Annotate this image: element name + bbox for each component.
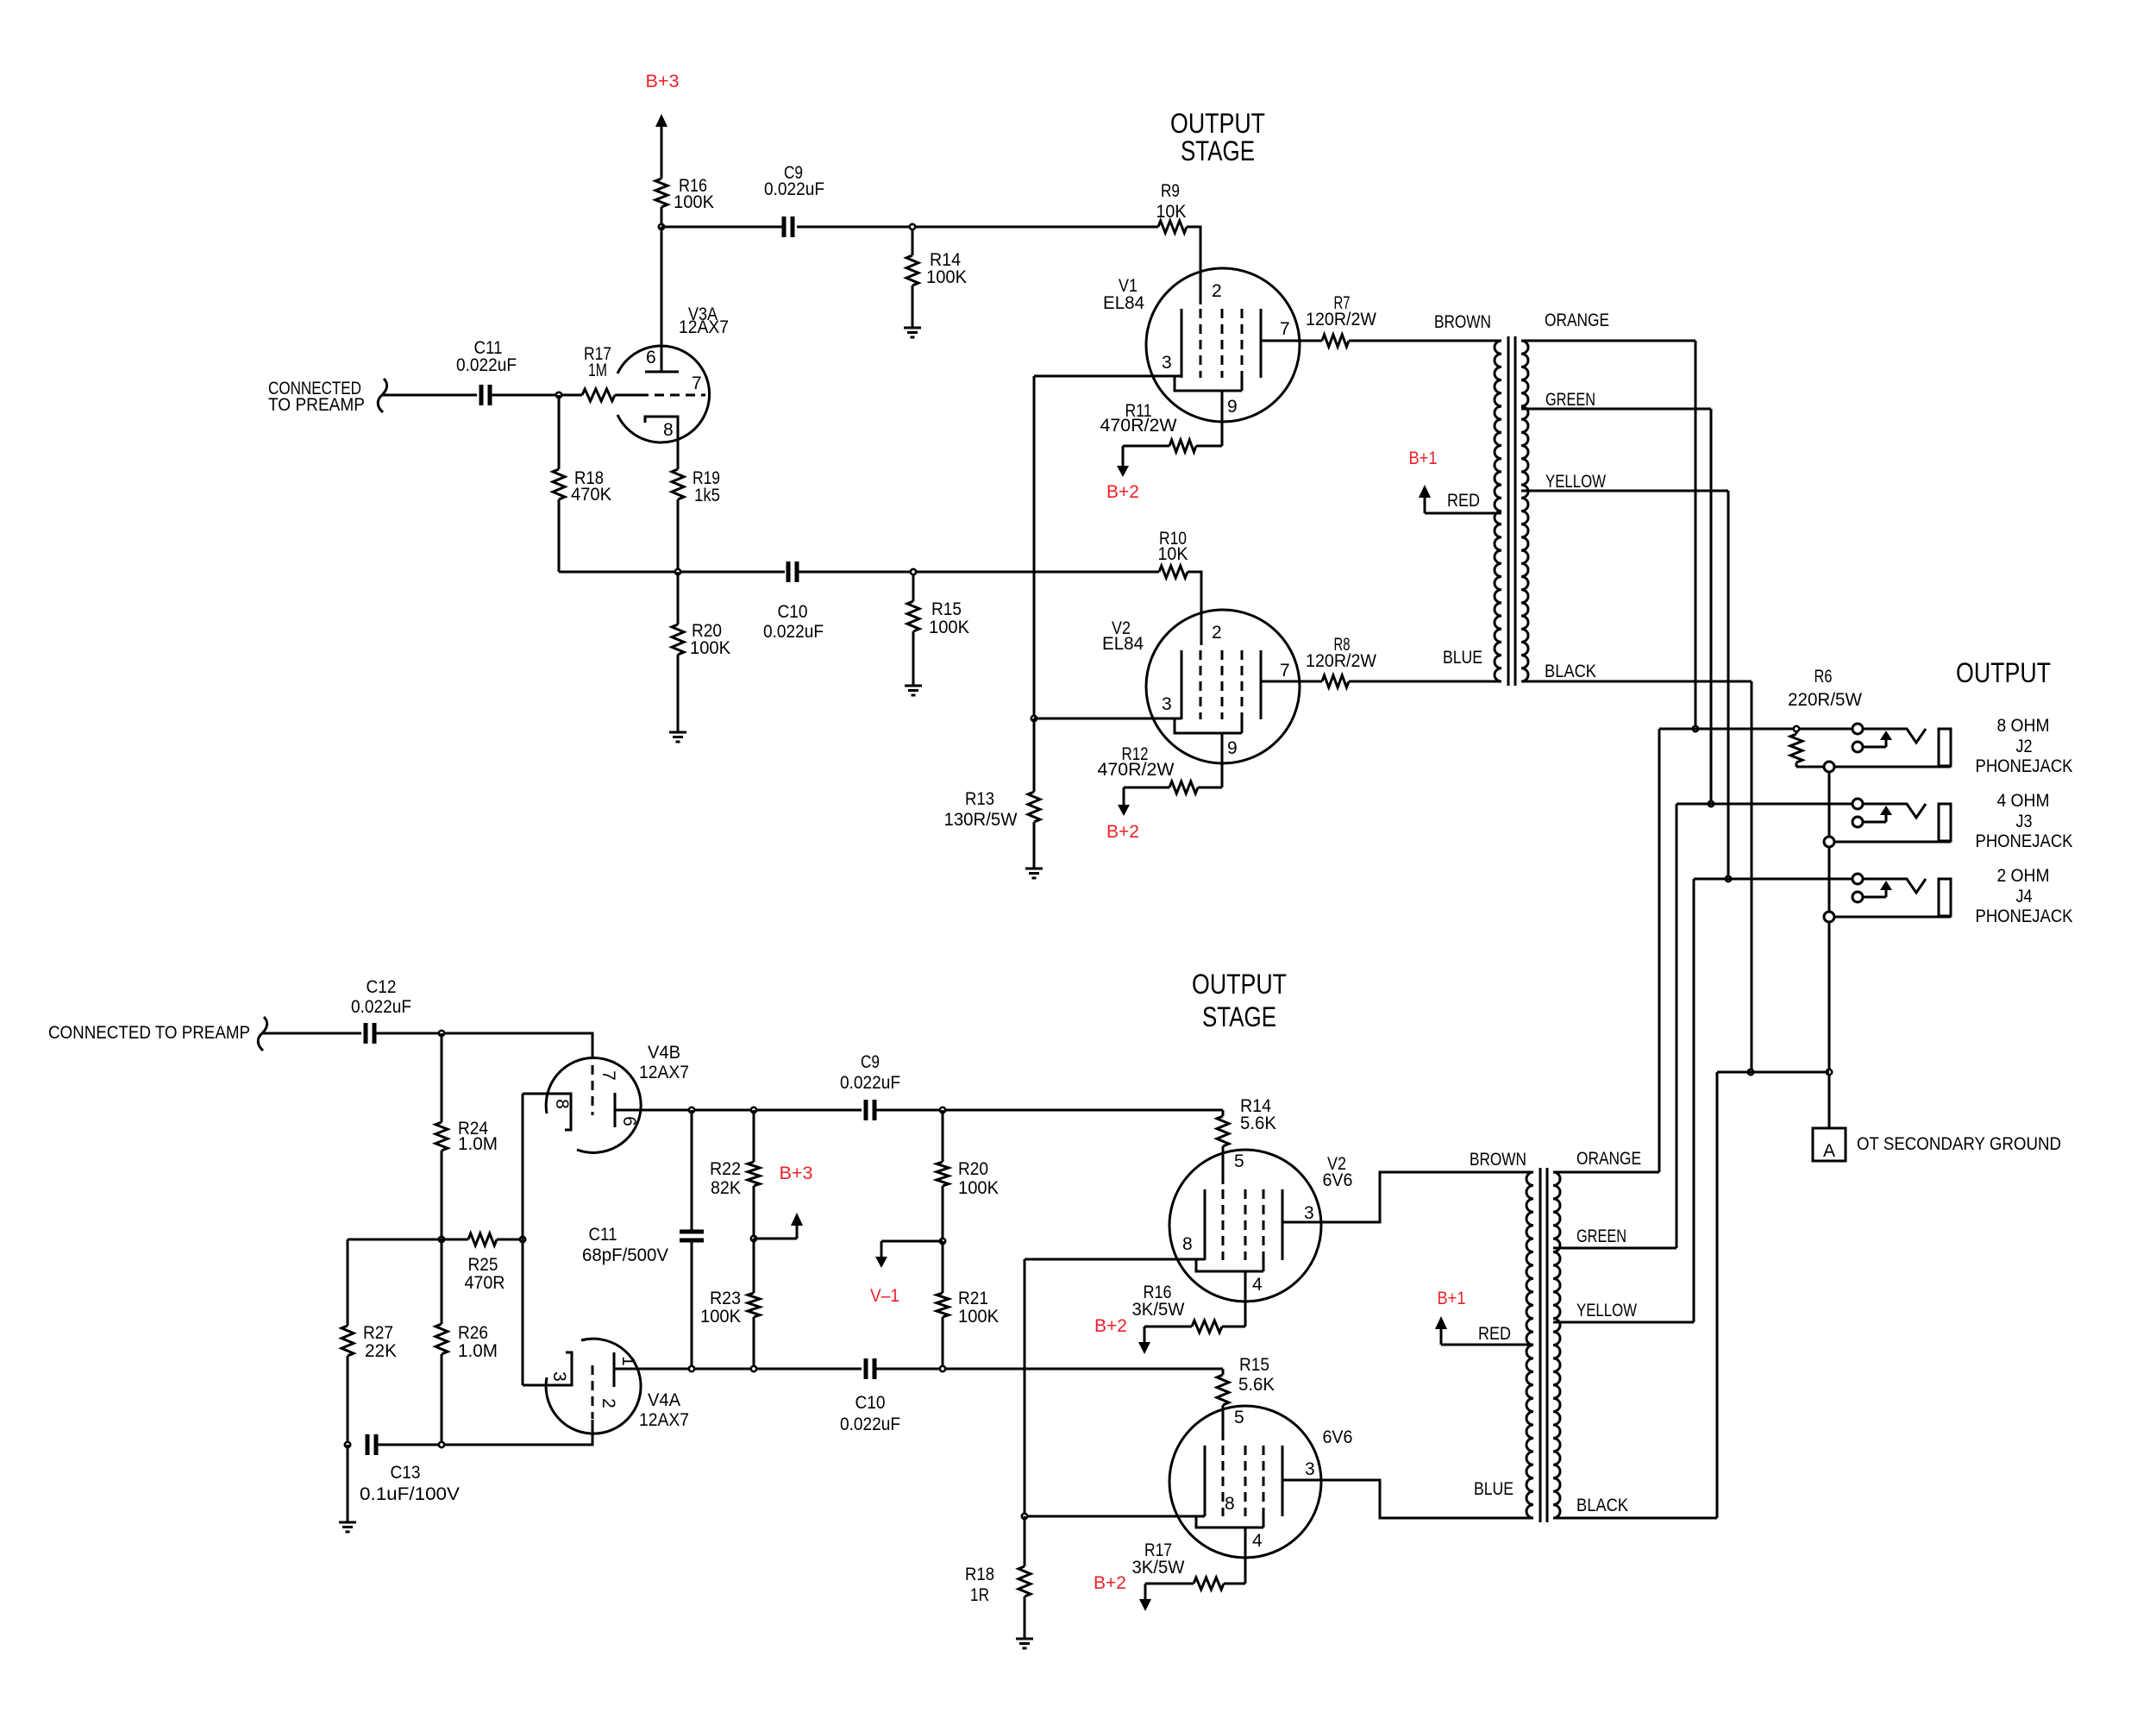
wire C10 to R15 corner [874, 1368, 1223, 1371]
title OUTPUT STAGE (upper) [1170, 108, 1265, 166]
svg-text:OUTPUT: OUTPUT [1170, 108, 1265, 139]
svg-text:R25: R25 [468, 1255, 498, 1275]
label V2 EL84 [1102, 618, 1144, 654]
6V6a screen grid [1244, 1189, 1247, 1260]
break squiggle lower input [258, 1017, 266, 1051]
V2 pin 2 grid [1200, 623, 1222, 719]
arrow to B+2 (R12) [1118, 787, 1130, 816]
pentode 6V6 V2 envelope [1169, 1150, 1321, 1302]
6V6b pin 3 lead [1282, 1459, 1533, 1518]
svg-text:B+2: B+2 [1106, 822, 1139, 842]
svg-text:BLUE: BLUE [1474, 1479, 1514, 1499]
T1 GREEN tap [1521, 390, 1711, 410]
wire to V-1 arrow [881, 1240, 943, 1243]
wire 2ohm down to T2 YELLOW [1693, 879, 1695, 1322]
svg-text:R21: R21 [958, 1289, 988, 1308]
svg-text:C13: C13 [391, 1463, 421, 1483]
capacitor C11 68pF [582, 1110, 704, 1369]
arrow to B+2 (R11) [1117, 446, 1129, 477]
svg-text:130R/5W: 130R/5W [944, 810, 1018, 830]
resistor R8 [1306, 635, 1376, 687]
svg-text:100K: 100K [929, 618, 969, 637]
capacitor C12 [351, 977, 411, 1044]
svg-text:V–1: V–1 [870, 1286, 899, 1306]
label BLUE (lower) [1474, 1479, 1514, 1499]
svg-text:B+2: B+2 [1094, 1573, 1126, 1593]
svg-text:STAGE: STAGE [1202, 1001, 1276, 1032]
svg-text:0.022uF: 0.022uF [763, 622, 824, 642]
label V4A 12AX7 [639, 1390, 689, 1430]
T2 RED tap [1441, 1324, 1533, 1345]
resistor R6 [1788, 667, 1862, 767]
svg-text:100K: 100K [958, 1307, 999, 1327]
arrow to B+3 (lower) [791, 1213, 803, 1239]
svg-text:R20: R20 [958, 1159, 988, 1179]
6V6a pin 3 lead [1282, 1172, 1533, 1223]
svg-text:OUTPUT: OUTPUT [1956, 657, 2051, 688]
svg-text:B+1: B+1 [1409, 448, 1438, 468]
svg-text:1k5: 1k5 [694, 486, 720, 505]
arrow up to B+3 [655, 114, 667, 179]
svg-text:B+2: B+2 [1094, 1316, 1127, 1336]
ground ref box A [1813, 1128, 1846, 1161]
svg-text:C10: C10 [778, 602, 808, 622]
node C10/R21 bottom [940, 1366, 945, 1371]
V2 cathode [1181, 650, 1183, 719]
label 6V6 (lower) [1323, 1427, 1353, 1447]
pentode V2 envelope [1146, 610, 1300, 763]
capacitor C9 [764, 163, 824, 237]
node R27/C13 [345, 1442, 350, 1447]
svg-text:100K: 100K [700, 1307, 741, 1327]
jack J4 ring contact [1852, 892, 1863, 902]
svg-text:12AX7: 12AX7 [679, 317, 729, 337]
svg-text:7: 7 [692, 373, 702, 393]
svg-text:5.6K: 5.6K [1238, 1375, 1275, 1395]
svg-text:V4B: V4B [648, 1043, 680, 1063]
svg-text:470R: 470R [465, 1273, 505, 1293]
resistor R14 [906, 229, 967, 328]
ground under R20 [669, 732, 686, 742]
wire ORANGE down [1695, 341, 1697, 729]
svg-text:470K: 470K [571, 485, 611, 505]
svg-text:5.6K: 5.6K [1240, 1113, 1276, 1133]
jack J3 ring contact [1852, 817, 1863, 827]
svg-text:1M: 1M [588, 361, 607, 380]
node C12/R24 [439, 1031, 444, 1036]
resistor R15 (upper) [907, 574, 969, 686]
wire 2ohm feed [1694, 878, 1852, 881]
jack J2 tip contact [1852, 724, 1863, 734]
6V6a suppressor grid [1263, 1189, 1265, 1271]
svg-text:0.022uF: 0.022uF [840, 1073, 900, 1093]
node C9/R14 [910, 224, 915, 229]
net label B+2 (R12) [1106, 822, 1139, 842]
wire YELLOW down [1727, 491, 1730, 879]
jack J2 ring contact [1852, 742, 1863, 752]
T2 YELLOW tap [1553, 1301, 1694, 1322]
wire C10 to R10 [797, 571, 1159, 574]
ground under R13 [1025, 869, 1043, 878]
6V6b suppressor grid [1263, 1446, 1265, 1527]
resistor R15 (lower) [1217, 1355, 1275, 1440]
6V6b screen grid [1244, 1446, 1247, 1516]
transformer T1 core [1508, 336, 1515, 686]
wire GREEN down [1710, 409, 1713, 804]
T1 BLACK tap [1521, 662, 1752, 681]
svg-text:PHONEJACK: PHONEJACK [1976, 906, 2073, 926]
wire C13 ground stem [347, 1445, 349, 1522]
svg-text:470R/2W: 470R/2W [1098, 760, 1175, 780]
triode V4A envelope [546, 1339, 641, 1433]
svg-text:6V6: 6V6 [1323, 1427, 1353, 1447]
wire 4ohm feed [1677, 803, 1852, 806]
svg-text:3: 3 [1304, 1203, 1314, 1223]
svg-text:B+3: B+3 [780, 1164, 813, 1183]
svg-text:RED: RED [1478, 1324, 1511, 1344]
net label B+1 (T2) [1438, 1289, 1466, 1308]
svg-text:1.0M: 1.0M [458, 1341, 498, 1361]
node R18 junction [1022, 1514, 1027, 1519]
node C9/R20 lower [940, 1107, 945, 1113]
T1 RED tap [1425, 491, 1501, 513]
arrow to V-1 [875, 1241, 887, 1268]
svg-text:8 OHM: 8 OHM [1997, 716, 2050, 736]
svg-text:PHONEJACK: PHONEJACK [1976, 831, 2073, 851]
capacitor C11 (input) [456, 338, 517, 405]
net label B+3 (top) [646, 72, 680, 91]
svg-text:7: 7 [599, 1070, 618, 1081]
wire sleeve bus [1828, 772, 1831, 1072]
svg-text:B+1: B+1 [1438, 1289, 1466, 1308]
resistor R14 (lower) [1217, 1096, 1276, 1184]
V4B plate wire [615, 1109, 862, 1112]
svg-text:BROWN: BROWN [1470, 1150, 1526, 1170]
V4A plate (pin 1) [614, 1352, 638, 1387]
T1 YELLOW tap [1521, 472, 1728, 492]
svg-text:R23: R23 [710, 1289, 741, 1308]
svg-text:3K/5W: 3K/5W [1132, 1558, 1185, 1578]
svg-text:100K: 100K [958, 1178, 999, 1198]
transformer T1 secondary [1521, 341, 1528, 681]
wire C9 to R14 corner [874, 1109, 1223, 1112]
svg-text:EL84: EL84 [1103, 293, 1144, 313]
wire C11 to R17 [490, 394, 582, 397]
svg-text:3: 3 [1162, 694, 1172, 714]
transformer T2 primary [1526, 1172, 1533, 1518]
V1 pin 3 lead [1034, 353, 1181, 376]
triode V4B envelope [546, 1057, 641, 1152]
svg-text:YELLOW: YELLOW [1545, 472, 1606, 492]
pentode V1 envelope [1146, 268, 1300, 422]
svg-text:2 OHM: 2 OHM [1997, 866, 2050, 886]
V4A grid (pin 2) [592, 1365, 618, 1445]
svg-text:EL84: EL84 [1102, 634, 1144, 654]
svg-text:STAGE: STAGE [1181, 135, 1255, 166]
resistor R21 (lower) [937, 1241, 999, 1369]
V1 cathode [1181, 309, 1183, 378]
node plate/R22 [751, 1107, 756, 1113]
wire R10 to V2 pin2 [1188, 572, 1201, 645]
svg-text:220R/5W: 220R/5W [1788, 690, 1862, 710]
svg-text:5: 5 [1234, 1151, 1244, 1171]
resistor R11 [1100, 401, 1223, 452]
svg-text:CONNECTED TO PREAMP: CONNECTED TO PREAMP [48, 1023, 250, 1043]
wire BLACK lower link [1717, 1071, 1829, 1074]
svg-text:BROWN: BROWN [1434, 312, 1491, 332]
svg-text:68pF/500V: 68pF/500V [582, 1245, 668, 1265]
svg-text:82K: 82K [711, 1178, 741, 1198]
V1 pin 9 lead [1222, 391, 1238, 446]
node plate/C11 [689, 1107, 694, 1113]
svg-text:OUTPUT: OUTPUT [1192, 969, 1287, 1000]
label OUTPUT (jacks) [1956, 657, 2051, 688]
arrow to B+1 (T2) [1435, 1316, 1447, 1345]
jack J4 tip spring [1864, 879, 1926, 893]
svg-text:B+2: B+2 [1106, 482, 1139, 502]
svg-text:120R/2W: 120R/2W [1306, 651, 1376, 671]
V4A plate wire [614, 1368, 862, 1371]
svg-text:V4A: V4A [648, 1390, 680, 1410]
label V1 EL84 [1103, 276, 1144, 313]
label BROWN (upper) [1434, 312, 1491, 332]
V2 plate [1260, 650, 1263, 719]
svg-text:3: 3 [1162, 353, 1172, 373]
svg-text:10K: 10K [1156, 202, 1187, 222]
wire R9 to V1 pin2 [1187, 227, 1200, 304]
svg-text:4: 4 [1252, 1531, 1263, 1551]
svg-text:4: 4 [1252, 1275, 1263, 1295]
svg-text:7: 7 [1280, 319, 1290, 339]
svg-text:3: 3 [549, 1371, 569, 1382]
svg-text:R15: R15 [931, 599, 962, 619]
text CONNECTED TO PREAMP (upper) [268, 379, 365, 415]
wire V1 pin3 bus [1033, 376, 1036, 718]
V1 suppressor grid [1241, 309, 1244, 391]
node R6 top [1794, 726, 1799, 731]
text CONNECTED TO PREAMP (lower) [48, 1023, 250, 1043]
svg-text:C10: C10 [856, 1393, 886, 1413]
svg-text:120R/2W: 120R/2W [1306, 310, 1376, 329]
svg-text:6V6: 6V6 [1323, 1170, 1353, 1190]
svg-text:R6: R6 [1814, 667, 1833, 687]
net label B+2 (R11) [1106, 482, 1139, 502]
node R25/cathode bus [520, 1237, 525, 1242]
node R22/R23 divider [751, 1236, 756, 1241]
svg-text:A: A [1823, 1141, 1835, 1161]
node plate V3A junction [659, 224, 664, 229]
node R20/R21 divider [940, 1239, 945, 1244]
6V6a pin 5 grid [1223, 1151, 1244, 1260]
resistor R16 [655, 176, 714, 212]
node sleeve/BLACK [1827, 1069, 1832, 1075]
resistor R7 [1306, 293, 1376, 347]
6V6a pin 4 lead [1245, 1271, 1263, 1327]
arrow to B+2 (R17) [1139, 1584, 1151, 1611]
V2 pin 7 lead [1261, 661, 1322, 681]
ground under R15 [905, 686, 922, 695]
svg-text:6: 6 [619, 1116, 639, 1126]
resistor R12 [1098, 744, 1223, 793]
V1 cathode hook [1175, 376, 1242, 391]
break squiggle upper input [378, 379, 386, 412]
svg-text:7: 7 [1280, 661, 1290, 681]
V3A cathode (pin 8) [645, 417, 678, 440]
wire R16 to plate node [661, 207, 663, 227]
capacitor C10 (upper) [763, 561, 824, 642]
wire cathode bus V4B-V4A [522, 1094, 524, 1385]
svg-text:1: 1 [618, 1356, 638, 1366]
jack J2 switch arrow [1864, 731, 1892, 747]
jack J3 body [1939, 804, 1951, 841]
svg-text:YELLOW: YELLOW [1576, 1301, 1637, 1320]
jack J2 body [1939, 729, 1951, 766]
wire R7 to transformer BROWN [1349, 340, 1501, 342]
V2 suppressor grid [1241, 650, 1244, 733]
jack J3 sleeve contact [1824, 837, 1834, 847]
V1 pin 2 grid [1200, 281, 1222, 378]
label OT SECONDARY GROUND [1857, 1134, 2061, 1154]
6V6a pin 8 lead [1025, 1234, 1205, 1259]
label 4 OHM J3 PHONEJACK [1976, 791, 2073, 851]
label V2 6V6 [1323, 1154, 1353, 1190]
resistor R25 [465, 1233, 523, 1293]
svg-text:C9: C9 [861, 1052, 880, 1072]
wire R18 to C10 row [559, 571, 785, 574]
svg-text:2: 2 [599, 1398, 618, 1408]
arrow to B+2 (R16) [1138, 1327, 1150, 1354]
svg-text:0.022uF: 0.022uF [840, 1414, 900, 1434]
svg-text:ORANGE: ORANGE [1576, 1149, 1641, 1169]
jack J4 sleeve line [1834, 916, 1951, 919]
svg-text:8: 8 [1182, 1234, 1193, 1254]
svg-text:GREEN: GREEN [1576, 1226, 1626, 1246]
svg-text:BLUE: BLUE [1443, 648, 1482, 668]
6V6b pin 5 grid [1223, 1408, 1244, 1516]
node grid V3A junction [556, 392, 561, 398]
ground under C13 [339, 1522, 356, 1532]
svg-text:R26: R26 [458, 1323, 488, 1343]
svg-text:B+3: B+3 [646, 72, 680, 91]
svg-text:RED: RED [1447, 491, 1480, 511]
svg-text:10K: 10K [1158, 544, 1188, 564]
wire 4ohm down to T2 GREEN [1676, 804, 1678, 1248]
node ORANGE/8ohm [1693, 726, 1698, 731]
node GREEN/4ohm [1708, 801, 1714, 806]
jack J2 sleeve line [1796, 766, 1951, 768]
V4B plate (pin 6) [615, 1093, 639, 1127]
svg-text:8: 8 [1225, 1494, 1235, 1514]
svg-text:R15: R15 [1239, 1355, 1269, 1375]
svg-text:J2: J2 [2016, 737, 2033, 756]
6V6b cathode [1204, 1446, 1206, 1516]
jack J3 switch arrow [1864, 806, 1892, 822]
wire C12 to V4B grid [374, 1033, 592, 1059]
svg-text:3K/5W: 3K/5W [1132, 1300, 1185, 1320]
svg-text:470R/2W: 470R/2W [1100, 416, 1177, 436]
node plate/R23 bottom [751, 1366, 756, 1371]
jack J4 body [1939, 879, 1951, 916]
resistor R9 [1156, 181, 1188, 233]
svg-text:R13: R13 [965, 789, 994, 809]
jack J2 sleeve contact [1824, 762, 1834, 772]
wire R17 to V3A grid [615, 394, 639, 397]
6V6b cathode hook [1196, 1515, 1263, 1527]
wire node to V3A plate [661, 227, 663, 372]
6V6a cathode [1204, 1189, 1206, 1260]
svg-text:100K: 100K [674, 192, 714, 212]
V4B cathode (pin 8) [523, 1094, 572, 1130]
6V6b pin 8 lead [1025, 1494, 1235, 1516]
node BLACK junction [1748, 1069, 1753, 1075]
jack J3 sleeve line [1834, 841, 1951, 844]
capacitor C10 (lower) [840, 1358, 900, 1434]
V3A grid (pin 7) [639, 373, 705, 395]
node C10/R15 [911, 569, 916, 574]
V4A cathode (pin 3) [523, 1352, 572, 1385]
svg-text:4 OHM: 4 OHM [1997, 791, 2050, 811]
net label B+2 (R16) [1094, 1316, 1127, 1336]
V2 pin 9 lead [1222, 733, 1238, 787]
jack J4 switch arrow [1864, 881, 1892, 897]
6V6a plate [1282, 1189, 1284, 1260]
svg-text:9: 9 [1227, 397, 1238, 417]
resistor R23 [700, 1239, 760, 1369]
svg-text:PHONEJACK: PHONEJACK [1976, 756, 2073, 776]
transformer T2 secondary [1553, 1172, 1560, 1518]
wire 6V6 cathode bus [1024, 1259, 1026, 1516]
node plate/C11 bottom [689, 1366, 694, 1371]
jack J3 tip contact [1852, 799, 1863, 809]
svg-text:1R: 1R [970, 1585, 989, 1605]
T2 BLACK tap [1553, 1496, 1717, 1518]
svg-text:J3: J3 [2016, 812, 2033, 831]
6V6b pin 4 lead [1245, 1527, 1263, 1584]
label BLUE (upper) [1443, 648, 1482, 668]
T2 ORANGE tap [1553, 1149, 1659, 1172]
resistor R26 [436, 1239, 498, 1445]
node R19/R20 junction [675, 569, 680, 574]
arrow to B+1 (T1) [1419, 485, 1431, 513]
node R24/R25/R26 [439, 1237, 444, 1242]
svg-text:ORANGE: ORANGE [1545, 310, 1609, 330]
wire input to C12 [262, 1032, 361, 1035]
svg-text:2: 2 [1212, 623, 1222, 643]
resistor R27 [342, 1239, 397, 1445]
wire bus to ground ref A [1828, 1075, 1831, 1128]
svg-text:100K: 100K [926, 267, 967, 287]
svg-text:8: 8 [663, 420, 674, 440]
T1 ORANGE tap [1521, 310, 1695, 341]
svg-text:0.022uF: 0.022uF [764, 179, 824, 199]
6V6a cathode hook [1196, 1259, 1263, 1271]
resistor R19 [672, 438, 720, 572]
resistor R20 (lower) [937, 1110, 999, 1241]
svg-text:C11: C11 [589, 1225, 617, 1245]
resistor R17 (lower) [1132, 1540, 1246, 1590]
svg-text:R18: R18 [965, 1565, 994, 1584]
svg-text:5: 5 [1234, 1408, 1244, 1427]
svg-text:3: 3 [1305, 1459, 1315, 1479]
V2 screen grid [1221, 650, 1224, 719]
net label B+1 (T1) [1409, 448, 1438, 468]
svg-text:J4: J4 [2016, 887, 2033, 906]
V1 screen grid [1221, 309, 1224, 378]
capacitor C13 [360, 1434, 460, 1504]
triode V3A envelope [617, 346, 710, 442]
resistor R18 [553, 395, 611, 572]
transformer T1 primary [1495, 341, 1501, 681]
